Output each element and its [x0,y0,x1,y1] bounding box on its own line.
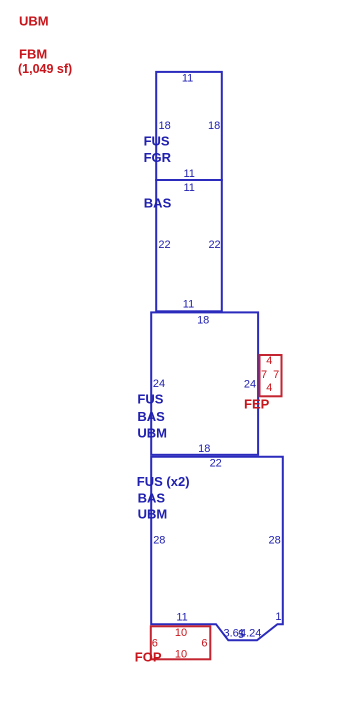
svg-text:FUS (x2): FUS (x2) [137,474,190,489]
svg-text:11: 11 [182,73,193,85]
dimension 4 (top of FEP) [266,355,272,367]
porch label FEP [244,397,270,412]
dimension 10 (top of FOP) [175,627,187,639]
dimension 24 (right of middle room) [244,378,256,390]
svg-text:4.24: 4.24 [240,627,261,639]
dimension 22 (right of BAS) [208,239,220,251]
porch outline FOP (10x6) [151,626,211,659]
legend label (1,049 sf) [18,62,72,76]
svg-text:18: 18 [208,120,220,132]
svg-text:11: 11 [183,168,194,180]
dimension 11 (top of FUS/FGR) [182,73,193,85]
svg-text:22: 22 [208,239,220,251]
svg-text:BAS: BAS [137,409,165,424]
dimension 22 (top of bottom room) [210,457,222,469]
svg-text:UBM: UBM [138,506,168,521]
legend label UBM [19,14,49,29]
room label UBM (middle) [137,426,167,441]
room label FGR [144,150,172,165]
svg-text:28: 28 [269,534,281,546]
dimension 18 (bottom of middle room) [198,443,210,455]
room label BAS [144,196,172,211]
svg-text:FEP: FEP [244,397,270,412]
dimension 11 (bottom left of bottom room) [176,611,187,623]
dimension 18 (left of FUS/FGR) [159,120,171,132]
svg-text:22: 22 [210,457,222,469]
svg-text:18: 18 [197,314,209,326]
dimension 28 (left of bottom room) [153,534,165,546]
room label BAS (middle) [137,409,165,424]
dimension 24 (left of middle room) [153,378,165,390]
svg-text:FUS: FUS [144,133,170,148]
svg-text:11: 11 [183,298,194,310]
room label FUS (middle) [137,392,163,407]
dimension 6 (right of FOP) [201,638,207,650]
svg-text:7: 7 [261,369,267,381]
svg-text:18: 18 [198,443,210,455]
svg-text:UBM: UBM [137,426,167,441]
svg-text:4: 4 [266,355,272,367]
svg-text:22: 22 [158,239,170,251]
svg-text:18: 18 [159,120,171,132]
svg-text:1: 1 [275,611,281,623]
svg-text:10: 10 [175,627,187,639]
room outline BAS (11x22) [156,180,222,311]
svg-text:10: 10 [175,649,187,661]
dimension 22 (left of BAS) [158,239,170,251]
porch label FOP [135,650,162,665]
dimension 10 (bottom of FOP) [175,649,187,661]
legend label FBM [19,47,47,62]
room label FUS (x2) [137,474,190,489]
dimension 4.24 (right diagonal) [240,627,261,639]
svg-text:4: 4 [266,382,272,394]
svg-text:11: 11 [183,182,194,194]
svg-text:FOP: FOP [135,650,162,665]
svg-text:7: 7 [273,369,279,381]
svg-text:FBM: FBM [19,47,47,62]
svg-text:BAS: BAS [138,490,166,505]
room outline FUS/FGR (11x18) [156,72,222,180]
dimension 5 (bottom of notch) [238,629,244,641]
dimension 28 (right of bottom room) [269,534,281,546]
svg-text:6: 6 [201,638,207,650]
dimension 18 (top of middle room) [197,314,209,326]
room outline FUS/BAS/UBM (18x24) [151,312,258,454]
svg-text:FUS: FUS [137,392,163,407]
dimension 7 (right of FEP) [273,369,279,381]
dimension 7 (left of FEP) [261,369,267,381]
svg-text:FGR: FGR [144,150,172,165]
dimension 11 (bottom of BAS) [183,298,194,310]
svg-text:11: 11 [176,611,187,623]
dimension 3.61 (left diagonal) [224,627,245,639]
porch outline FEP (4x7) [260,355,282,396]
svg-text:6: 6 [152,638,158,650]
svg-text:24: 24 [244,378,256,390]
room label FUS [144,133,170,148]
dimension 18 (right of FUS/FGR) [208,120,220,132]
dimension 11 (top of BAS) [183,182,194,194]
dimension 1 (right notch) [275,611,281,623]
room label UBM (bottom) [138,506,168,521]
svg-text:24: 24 [153,378,165,390]
svg-text:(1,049 sf): (1,049 sf) [18,62,72,76]
room label BAS (bottom) [138,490,166,505]
dimension 11 (bottom of FUS/FGR) [183,168,194,180]
svg-text:UBM: UBM [19,14,49,29]
svg-text:28: 28 [153,534,165,546]
dimension 4 (bottom of FEP) [266,382,272,394]
svg-text:BAS: BAS [144,196,172,211]
room outline FUS(x2)/BAS/UBM (22x28 with notch) [151,457,283,641]
dimension 6 (left of FOP) [152,638,158,650]
